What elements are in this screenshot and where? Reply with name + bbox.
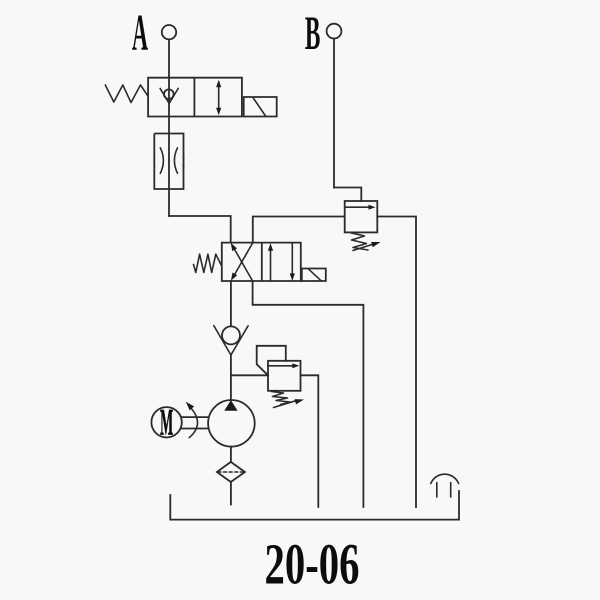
wire node to valve V2 left top port xyxy=(169,216,231,243)
valve V2 crossed arrow 2 xyxy=(234,243,253,277)
wire filter to tank xyxy=(230,482,232,505)
valve V1 flow arrow line xyxy=(218,84,220,111)
valve V1 solenoid diagonal xyxy=(253,98,265,116)
relief valve V3 spring xyxy=(351,233,368,250)
pump circle xyxy=(208,400,255,447)
check valve circle xyxy=(222,326,240,344)
valve V2 parallel arrow down xyxy=(291,243,293,278)
valve V1 body (2/2 solenoid valve) xyxy=(148,78,242,117)
relief valve V3 internal arrow xyxy=(345,206,369,208)
svg-text:M: M xyxy=(160,403,173,444)
relief valve V4 adjust arrow xyxy=(274,401,296,408)
valve V2 solenoid diagonal xyxy=(309,269,321,281)
throttle side dashes xyxy=(154,155,183,168)
filter dashed element xyxy=(218,471,244,473)
throttle restrictor body xyxy=(154,134,183,190)
svg-text:A: A xyxy=(132,5,148,62)
port B circle xyxy=(327,24,342,39)
pump flow triangle xyxy=(224,400,237,411)
wire relief V4 outlet to tank xyxy=(301,375,319,507)
motor shaft lines xyxy=(182,417,209,428)
relief valve V4 pilot loop xyxy=(257,346,286,376)
wire B port down xyxy=(333,39,335,188)
wire B to relief valve V3 pilot top xyxy=(334,188,361,202)
breather arc xyxy=(431,474,459,483)
check valve seat V xyxy=(214,326,248,355)
wire valve V2 right bottom port to tank xyxy=(253,281,364,507)
relief valve V4 spring xyxy=(272,392,291,405)
filter diamond xyxy=(217,462,245,482)
relief valve V4 internal arrow xyxy=(268,365,293,367)
wire valve V2 left bottom port to check valve xyxy=(230,281,232,326)
breather legs xyxy=(437,483,451,498)
valve V2 solenoid xyxy=(302,269,326,282)
valve V1 check ball circle xyxy=(164,89,174,99)
wire A port to valve V1 and throttle down to node xyxy=(168,40,170,216)
motor rotation arrow xyxy=(189,407,197,438)
wire check valve to pump xyxy=(230,355,232,400)
valve V2 parallel arrow up xyxy=(270,247,272,281)
relief valve V4 body xyxy=(268,361,301,391)
relief valve V3 adjust arrow xyxy=(353,245,372,251)
valve V2 spring xyxy=(194,254,222,272)
relief valve V3 body xyxy=(345,201,378,232)
valve V2 crossed arrow 1 xyxy=(234,248,253,282)
wire relief V3 outlet to tank xyxy=(377,217,416,508)
svg-text:B: B xyxy=(305,7,321,60)
valve V1 check seat V xyxy=(160,88,178,103)
valve V1 spring xyxy=(105,85,148,103)
wire pump to filter xyxy=(230,447,232,462)
wire valve V2 right top port to relief V3 inlet xyxy=(253,217,345,243)
throttle right arc xyxy=(174,148,177,174)
valve V1 flow arrow heads xyxy=(216,80,221,88)
wire junction to relief V4 inlet xyxy=(231,374,268,376)
throttle left arc xyxy=(160,148,163,174)
motor circle xyxy=(151,407,181,437)
tank outline xyxy=(170,491,459,520)
port A circle xyxy=(162,25,176,39)
svg-text:20-06: 20-06 xyxy=(265,532,360,597)
valve V1 solenoid xyxy=(244,97,277,117)
valve V2 body (4/2 solenoid valve) xyxy=(222,243,301,281)
